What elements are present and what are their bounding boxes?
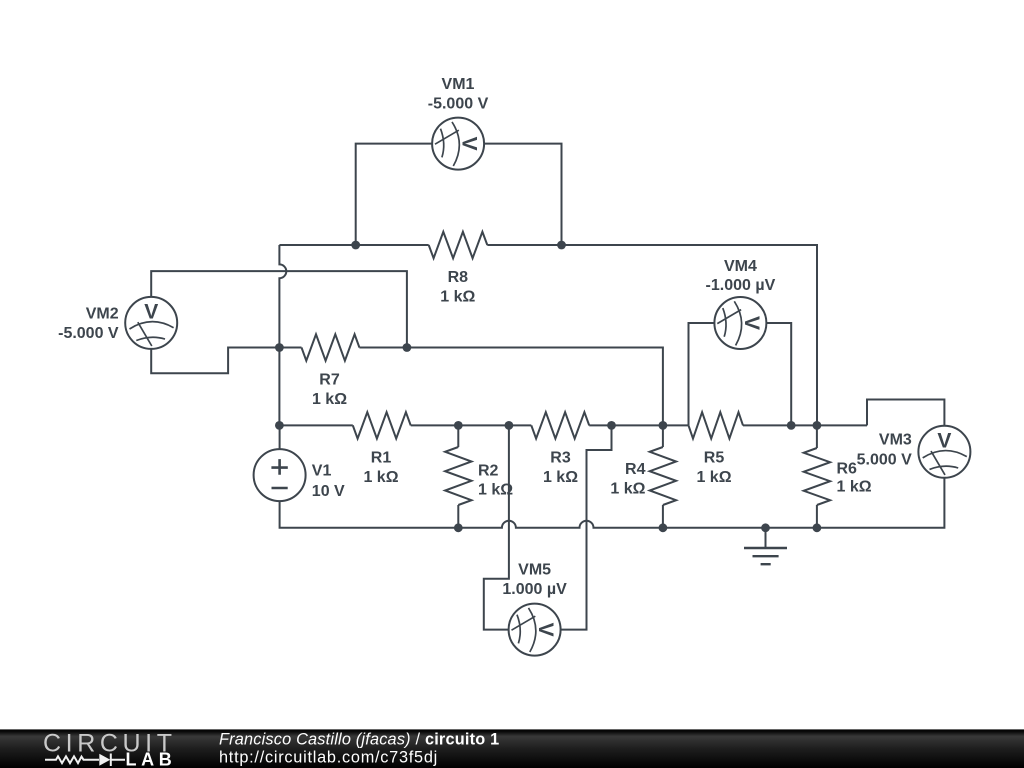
wire R7 to R4 node (359, 348, 663, 426)
svg-text:V: V (740, 316, 763, 330)
wire V1 top lead (279, 425, 281, 449)
ground (744, 528, 787, 564)
svg-text:VM2: VM2 (86, 306, 119, 323)
wire VM2 top lead to node (151, 271, 407, 347)
voltage source V1 (254, 449, 306, 501)
wire main bus segment 3 (589, 424, 688, 426)
svg-text:R6: R6 (837, 461, 858, 478)
wire top bus right segment (487, 245, 817, 425)
node junction 7 (505, 421, 514, 430)
wire VM4 left lead (689, 323, 715, 425)
svg-text:10 V: 10 V (312, 483, 345, 500)
voltmeter VM5 (509, 604, 561, 656)
resistor R4 leads (662, 425, 664, 447)
wire top bus left segment (279, 244, 428, 246)
node junction 3 (275, 343, 284, 352)
wire V1 bottom lead and ground bus with hops (280, 501, 817, 528)
resistor R4 (650, 447, 676, 505)
wire main bus segment 4 (743, 424, 867, 426)
node junction 6 (454, 421, 463, 430)
wire VM2 bottom lead (151, 348, 279, 374)
svg-text:V1: V1 (312, 463, 332, 480)
resistor R8 (429, 232, 488, 258)
wire R7 branch (279, 347, 301, 349)
svg-text:R5: R5 (704, 449, 725, 466)
svg-text:VM4: VM4 (724, 258, 757, 275)
wire VM1 left lead (356, 144, 432, 245)
svg-text:1 kΩ: 1 kΩ (363, 469, 398, 486)
node junction 11 (813, 421, 822, 430)
svg-text:VM1: VM1 (442, 76, 475, 93)
node junction 2 (557, 241, 566, 250)
svg-text:1 kΩ: 1 kΩ (312, 391, 347, 408)
svg-text:Francisco Castillo (jfacas) /: Francisco Castillo (jfacas) / circuito 1 (219, 731, 499, 749)
svg-text:VM5: VM5 (518, 562, 551, 579)
wire VM4 right lead (766, 323, 791, 425)
node junction 5 (275, 421, 284, 430)
svg-text:-5.000 V: -5.000 V (58, 325, 119, 342)
svg-text:R8: R8 (448, 269, 469, 286)
svg-text:VM3: VM3 (879, 432, 912, 449)
wire VM3 top hook (867, 400, 944, 426)
node junction 4 (403, 343, 412, 352)
svg-text:R4: R4 (625, 461, 646, 478)
resistor R3 (531, 412, 589, 438)
node junction 15 (813, 523, 822, 532)
node junction 14 (761, 523, 770, 532)
svg-text:1.000 µV: 1.000 µV (502, 581, 567, 598)
wire VM1 right lead (484, 144, 561, 245)
resistor R2 leads (457, 425, 459, 447)
resistor R1 (353, 412, 411, 438)
voltmeter VM2 (125, 297, 177, 349)
node junction 9 (659, 421, 668, 430)
voltmeter VM3 (918, 426, 970, 478)
CircuitLab logo resistor-diode glyph (45, 754, 125, 767)
node junction 13 (659, 523, 668, 532)
resistor R6 leads (816, 425, 818, 448)
voltmeter VM4 (714, 297, 766, 349)
node junction 12 (454, 523, 463, 532)
svg-text:1 kΩ: 1 kΩ (478, 482, 513, 499)
resistor R2 (445, 447, 471, 505)
wire main bus segment 2 (411, 424, 532, 426)
svg-text:V: V (144, 300, 158, 323)
node junction 1 (351, 241, 360, 250)
resistor R6 (804, 448, 830, 505)
svg-text:5.000 V: 5.000 V (857, 452, 912, 469)
svg-text:V: V (534, 623, 557, 637)
voltmeter VM1 (432, 118, 484, 170)
svg-text:V: V (458, 137, 481, 151)
node junction 10 (787, 421, 796, 430)
svg-text:1 kΩ: 1 kΩ (837, 479, 872, 496)
svg-text:R7: R7 (319, 372, 340, 389)
wire VM3 bottom return (817, 478, 945, 528)
svg-text:R3: R3 (550, 449, 571, 466)
svg-text:R1: R1 (371, 449, 392, 466)
svg-text:1 kΩ: 1 kΩ (696, 469, 731, 486)
wire left vertical with hop over VM2 wire (279, 245, 286, 425)
svg-text:1 kΩ: 1 kΩ (543, 469, 578, 486)
wire VM5 left branch (484, 425, 509, 629)
svg-text:http://circuitlab.com/c73f5dj: http://circuitlab.com/c73f5dj (219, 748, 438, 766)
svg-text:-1.000 µV: -1.000 µV (706, 277, 776, 294)
resistor R7 (302, 334, 360, 360)
node junction 8 (607, 421, 616, 430)
wire main bus segment 1 (279, 424, 352, 426)
svg-text:-5.000 V: -5.000 V (428, 95, 489, 112)
svg-text:R2: R2 (478, 462, 499, 479)
wire VM5 right branch (561, 425, 612, 629)
svg-text:1 kΩ: 1 kΩ (610, 480, 645, 497)
svg-text:1 kΩ: 1 kΩ (440, 288, 475, 305)
svg-text:V: V (937, 429, 951, 452)
resistor R5 (689, 412, 744, 438)
svg-text:LAB: LAB (126, 750, 177, 768)
